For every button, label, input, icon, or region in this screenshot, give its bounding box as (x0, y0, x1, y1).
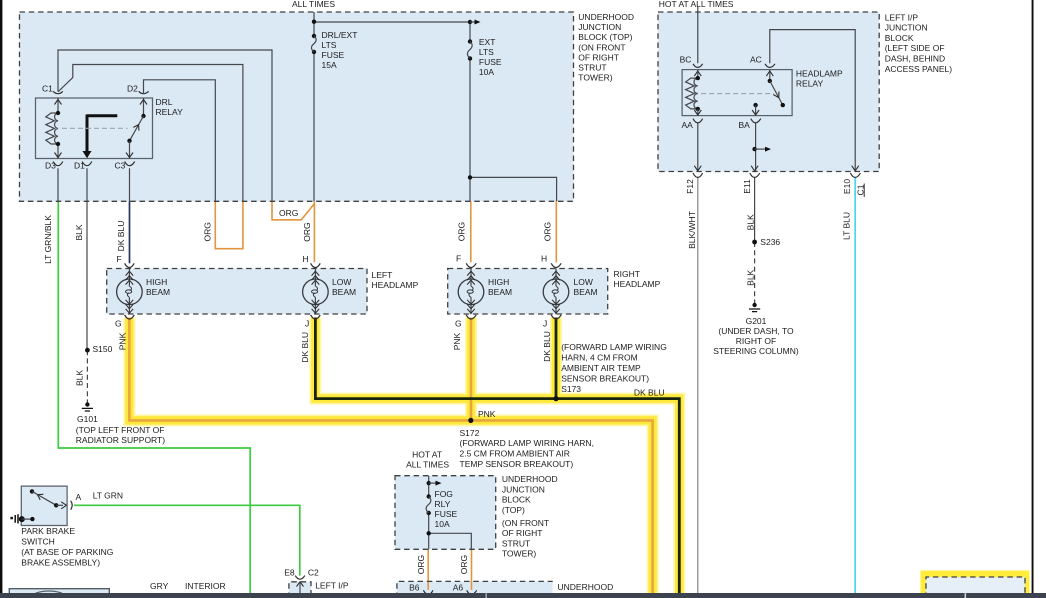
svg-text:DK BLU: DK BLU (116, 221, 126, 252)
svg-text:ORG: ORG (302, 222, 312, 241)
svg-text:RELAY: RELAY (796, 79, 824, 89)
svg-text:C1: C1 (856, 184, 866, 195)
svg-text:BLK/WHT: BLK/WHT (687, 211, 697, 249)
svg-text:(FORWARD LAMP WIRING: (FORWARD LAMP WIRING (561, 342, 667, 352)
svg-text:STRUT: STRUT (578, 62, 606, 72)
svg-text:ALL TIMES: ALL TIMES (292, 0, 335, 9)
svg-text:D3: D3 (45, 160, 56, 170)
svg-text:FUSE: FUSE (435, 509, 458, 519)
svg-text:(FORWARD LAMP WIRING HARN,: (FORWARD LAMP WIRING HARN, (460, 438, 594, 448)
svg-text:RADIATOR SUPPORT): RADIATOR SUPPORT) (76, 435, 165, 445)
svg-text:JUNCTION: JUNCTION (502, 484, 545, 494)
svg-text:RLY: RLY (435, 499, 451, 509)
svg-text:HEADLAMP: HEADLAMP (614, 279, 661, 289)
svg-text:D2: D2 (127, 83, 138, 93)
svg-text:FOG: FOG (435, 489, 453, 499)
svg-text:(UNDER DASH, TO: (UNDER DASH, TO (718, 326, 794, 336)
svg-text:J: J (543, 318, 547, 328)
svg-text:ORG: ORG (459, 555, 469, 574)
svg-text:BEAM: BEAM (488, 287, 512, 297)
svg-text:LTS: LTS (322, 40, 337, 50)
svg-text:JUNCTION: JUNCTION (578, 22, 621, 32)
svg-text:OF RIGHT: OF RIGHT (578, 52, 619, 62)
svg-text:LTS: LTS (479, 47, 494, 57)
svg-text:BLK: BLK (745, 269, 755, 285)
svg-text:DK BLU: DK BLU (542, 331, 552, 362)
svg-text:HOT AT ALL TIMES: HOT AT ALL TIMES (659, 0, 734, 9)
svg-text:SENSOR BREAKOUT): SENSOR BREAKOUT) (561, 374, 649, 384)
svg-text:RIGHT: RIGHT (614, 269, 640, 279)
svg-text:LEFT: LEFT (372, 270, 393, 280)
svg-text:BLK: BLK (74, 224, 84, 240)
svg-text:DK BLU: DK BLU (300, 332, 310, 363)
svg-text:C1: C1 (42, 83, 53, 93)
svg-text:EXT: EXT (479, 37, 496, 47)
svg-text:C3: C3 (115, 160, 126, 170)
svg-text:(AT BASE OF PARKING: (AT BASE OF PARKING (21, 547, 113, 557)
svg-text:H: H (541, 254, 547, 264)
svg-text:(TOP): (TOP) (502, 505, 525, 515)
svg-text:BLOCK: BLOCK (885, 33, 914, 43)
svg-text:LEFT I/P: LEFT I/P (315, 580, 349, 590)
svg-text:(TOP LEFT FRONT OF: (TOP LEFT FRONT OF (76, 425, 165, 435)
svg-text:LOW: LOW (332, 277, 351, 287)
svg-text:F12: F12 (685, 179, 695, 194)
svg-text:AA: AA (682, 120, 694, 130)
svg-text:H: H (303, 254, 309, 264)
svg-text:HIGH: HIGH (488, 277, 509, 287)
svg-text:OF RIGHT: OF RIGHT (502, 528, 543, 538)
svg-text:TEMP SENSOR BREAKOUT): TEMP SENSOR BREAKOUT) (460, 459, 574, 469)
svg-text:BA: BA (739, 120, 751, 130)
svg-text:BEAM: BEAM (332, 287, 356, 297)
svg-text:G101: G101 (77, 414, 98, 424)
svg-text:UNDERHOOD: UNDERHOOD (578, 12, 634, 22)
svg-text:AC: AC (750, 54, 762, 64)
svg-text:HARN, 4 CM FROM: HARN, 4 CM FROM (561, 353, 638, 363)
svg-text:10A: 10A (435, 519, 450, 529)
svg-text:DASH, BEHIND: DASH, BEHIND (885, 54, 945, 64)
svg-text:D1: D1 (74, 160, 85, 170)
svg-text:PNK: PNK (452, 332, 462, 350)
svg-text:RIGHT OF: RIGHT OF (736, 336, 776, 346)
svg-text:FUSE: FUSE (322, 50, 345, 60)
svg-text:PNK: PNK (117, 332, 127, 350)
svg-text:ORG: ORG (416, 555, 426, 574)
svg-text:BLK: BLK (75, 370, 85, 386)
svg-text:UNDERHOOD: UNDERHOOD (558, 582, 614, 592)
svg-text:ORG: ORG (279, 208, 298, 218)
svg-text:LT GRN: LT GRN (93, 491, 123, 501)
svg-text:LOW: LOW (574, 277, 593, 287)
svg-text:GRY: GRY (150, 581, 169, 591)
svg-text:A6: A6 (453, 582, 464, 592)
svg-text:S236: S236 (760, 237, 780, 247)
svg-text:15A: 15A (322, 60, 337, 70)
svg-text:STRUT: STRUT (502, 538, 530, 548)
svg-text:TOWER): TOWER) (502, 549, 536, 559)
svg-text:BRAKE ASSEMBLY): BRAKE ASSEMBLY) (21, 557, 100, 567)
svg-text:AMBIENT AIR TEMP: AMBIENT AIR TEMP (561, 363, 641, 373)
svg-text:DRL/EXT: DRL/EXT (322, 30, 358, 40)
svg-text:HIGH: HIGH (146, 277, 167, 287)
svg-text:FUSE: FUSE (479, 57, 502, 67)
svg-text:F: F (456, 254, 461, 264)
svg-text:G201: G201 (746, 316, 767, 326)
svg-text:BEAM: BEAM (146, 287, 170, 297)
svg-text:F: F (117, 254, 122, 264)
svg-text:PNK: PNK (478, 409, 496, 419)
svg-text:ACCESS PANEL): ACCESS PANEL) (885, 64, 953, 74)
svg-text:(LEFT SIDE OF: (LEFT SIDE OF (885, 43, 945, 53)
svg-text:BEAM: BEAM (574, 287, 598, 297)
svg-text:ORG: ORG (457, 222, 467, 241)
svg-text:G: G (115, 318, 122, 328)
svg-text:HEADLAMP: HEADLAMP (796, 69, 843, 79)
svg-text:G: G (455, 318, 462, 328)
svg-text:E8: E8 (284, 567, 295, 577)
svg-text:BLOCK (TOP): BLOCK (TOP) (578, 32, 632, 42)
svg-text:ORG: ORG (203, 222, 213, 241)
svg-text:(ON FRONT: (ON FRONT (502, 518, 549, 528)
svg-text:J: J (305, 318, 309, 328)
svg-text:INTERIOR: INTERIOR (185, 581, 226, 591)
svg-text:C2: C2 (308, 567, 319, 577)
svg-text:(ON FRONT: (ON FRONT (578, 42, 625, 52)
svg-text:ORG: ORG (543, 222, 553, 241)
svg-text:A: A (76, 492, 82, 502)
svg-text:E10: E10 (842, 179, 852, 194)
svg-text:JUNCTION: JUNCTION (885, 23, 928, 33)
svg-text:RELAY: RELAY (156, 107, 184, 117)
svg-text:ALL TIMES: ALL TIMES (406, 459, 449, 469)
svg-text:TOWER): TOWER) (578, 72, 612, 82)
svg-text:DK BLU: DK BLU (634, 388, 665, 398)
svg-text:PARK BRAKE: PARK BRAKE (21, 526, 75, 536)
svg-text:BC: BC (680, 54, 692, 64)
svg-text:S172: S172 (460, 428, 480, 438)
svg-text:S150: S150 (93, 344, 113, 354)
svg-text:DRL: DRL (156, 97, 173, 107)
svg-text:10A: 10A (479, 67, 494, 77)
svg-text:BLOCK: BLOCK (502, 495, 531, 505)
svg-text:UNDERHOOD: UNDERHOOD (502, 474, 558, 484)
svg-text:SWITCH: SWITCH (21, 537, 55, 547)
svg-text:LEFT I/P: LEFT I/P (885, 12, 919, 22)
svg-text:E11: E11 (742, 179, 752, 194)
svg-text:STEERING COLUMN): STEERING COLUMN) (713, 346, 799, 356)
svg-text:HOT AT: HOT AT (412, 449, 442, 459)
svg-text:LT GRN/BLK: LT GRN/BLK (43, 215, 53, 264)
svg-text:BLK: BLK (745, 214, 755, 230)
svg-text:HEADLAMP: HEADLAMP (372, 280, 419, 290)
svg-text:B6: B6 (409, 582, 420, 592)
svg-text:LT BLU: LT BLU (841, 212, 851, 240)
svg-text:S173: S173 (561, 384, 581, 394)
svg-text:2.5 CM FROM AMBIENT AIR: 2.5 CM FROM AMBIENT AIR (460, 449, 570, 459)
